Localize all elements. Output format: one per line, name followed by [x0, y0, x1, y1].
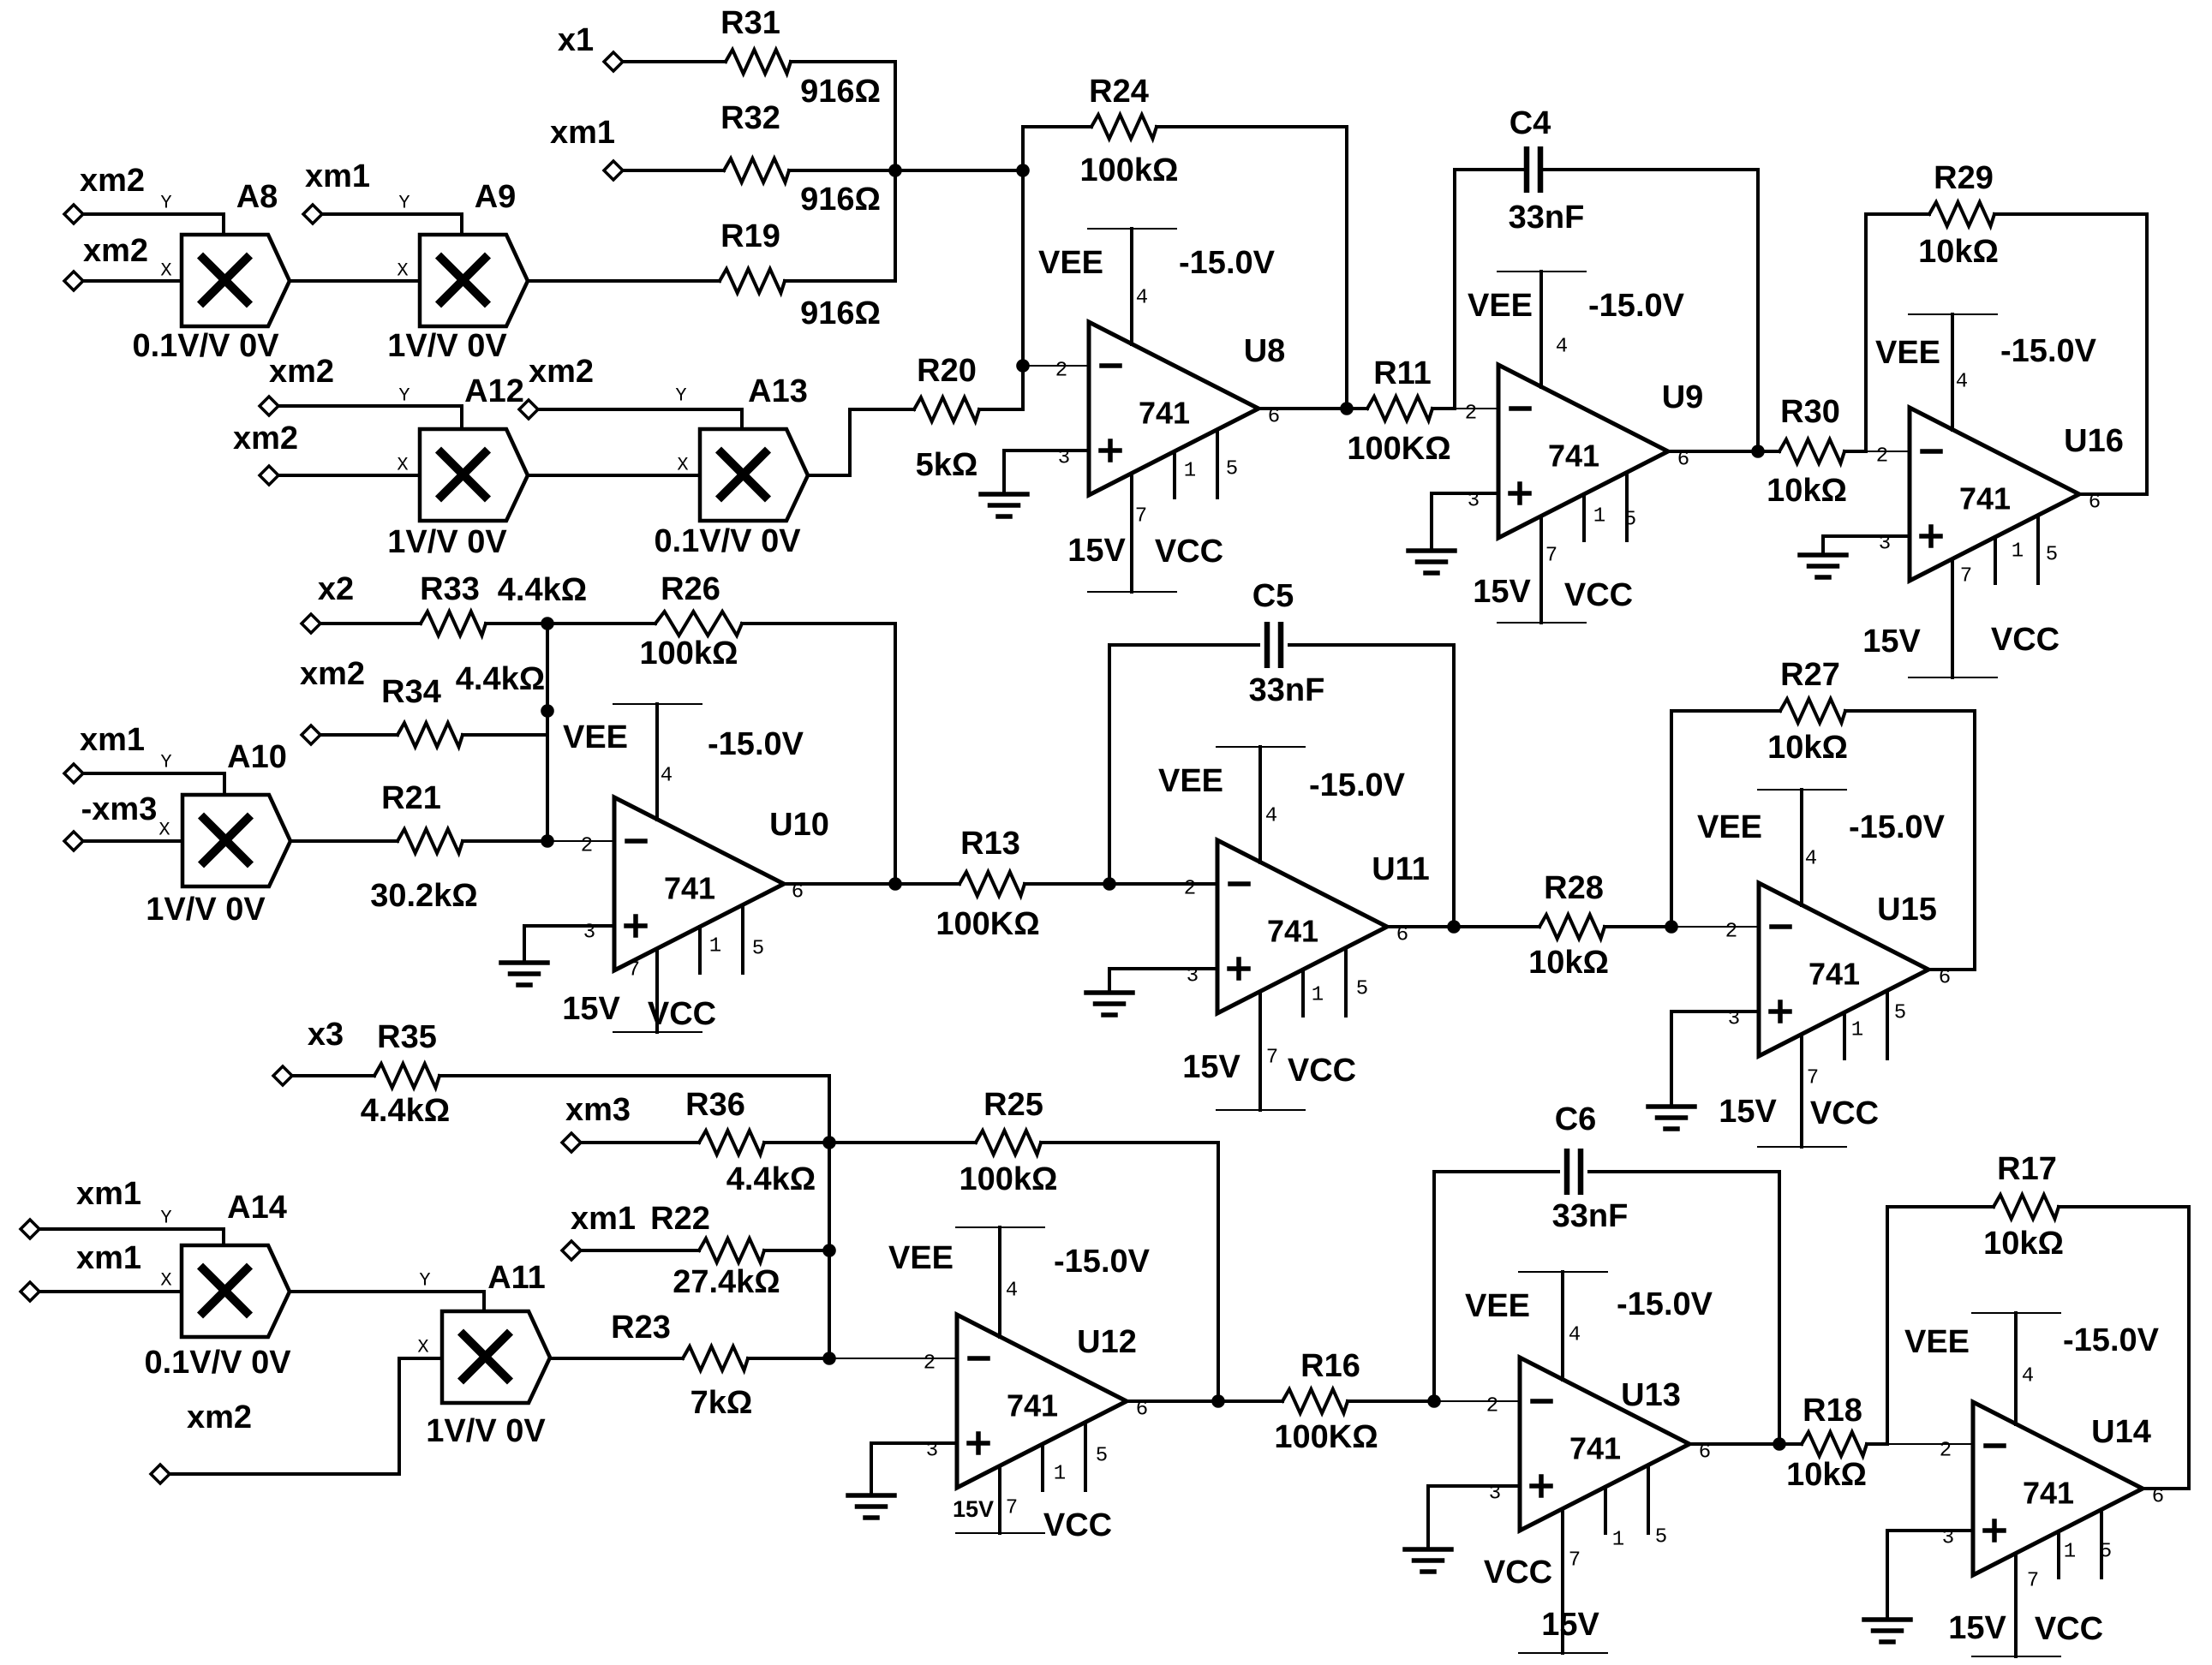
svg-text:7: 7 [1545, 545, 1557, 568]
svg-text:7: 7 [1569, 1549, 1581, 1572]
svg-text:5: 5 [1096, 1445, 1108, 1468]
svg-text:-15.0V: -15.0V [1588, 288, 1685, 324]
svg-text:5: 5 [1356, 978, 1368, 1001]
svg-text:1: 1 [1593, 505, 1605, 528]
svg-text:VEE: VEE [1038, 245, 1103, 281]
svg-text:R30: R30 [1780, 394, 1840, 430]
svg-text:1: 1 [2064, 1541, 2076, 1564]
svg-text:xm1: xm1 [80, 722, 145, 758]
svg-text:xm2: xm2 [187, 1399, 252, 1435]
svg-text:10kΩ: 10kΩ [1918, 234, 1999, 270]
svg-text:33nF: 33nF [1552, 1198, 1629, 1234]
svg-text:1: 1 [2012, 540, 2024, 564]
svg-text:R29: R29 [1934, 160, 1994, 196]
svg-text:7: 7 [1266, 1047, 1278, 1070]
svg-text:6: 6 [1939, 967, 1951, 990]
svg-text:15V: 15V [1473, 574, 1531, 610]
svg-text:Y: Y [398, 385, 410, 407]
svg-text:10kΩ: 10kΩ [1528, 945, 1609, 981]
svg-text:7: 7 [628, 959, 640, 982]
svg-text:xm1: xm1 [571, 1201, 636, 1237]
svg-text:U12: U12 [1077, 1324, 1137, 1360]
svg-text:4.4kΩ: 4.4kΩ [726, 1161, 816, 1197]
svg-text:10kΩ: 10kΩ [1767, 730, 1848, 766]
svg-text:R23: R23 [611, 1310, 671, 1346]
svg-text:7: 7 [1807, 1067, 1819, 1090]
svg-text:741: 741 [1139, 396, 1190, 431]
svg-text:2: 2 [1465, 403, 1477, 426]
svg-text:2: 2 [1940, 1440, 1952, 1463]
svg-text:7: 7 [1135, 505, 1147, 528]
svg-text:U14: U14 [2091, 1414, 2151, 1450]
svg-text:R34: R34 [381, 674, 441, 710]
svg-text:VCC: VCC [1043, 1507, 1112, 1543]
svg-text:xm1: xm1 [76, 1240, 141, 1276]
svg-text:Y: Y [419, 1270, 430, 1292]
svg-text:VEE: VEE [1875, 335, 1940, 371]
svg-text:741: 741 [2023, 1476, 2074, 1511]
svg-text:R24: R24 [1089, 74, 1149, 110]
svg-text:-15.0V: -15.0V [1179, 245, 1276, 281]
svg-text:7kΩ: 7kΩ [691, 1385, 753, 1421]
svg-text:xm2: xm2 [80, 163, 145, 199]
svg-text:U10: U10 [769, 807, 829, 843]
svg-text:R20: R20 [917, 353, 977, 389]
svg-text:1: 1 [709, 935, 721, 958]
svg-text:VEE: VEE [1468, 288, 1533, 324]
svg-text:xm3: xm3 [565, 1092, 631, 1128]
svg-text:0.1V/V 0V: 0.1V/V 0V [132, 328, 279, 364]
svg-text:X: X [397, 455, 408, 476]
svg-text:2: 2 [924, 1352, 936, 1376]
svg-text:A8: A8 [236, 179, 278, 215]
svg-text:741: 741 [1808, 957, 1860, 992]
svg-text:100KΩ: 100KΩ [1274, 1419, 1378, 1455]
svg-text:4: 4 [1805, 848, 1817, 871]
svg-text:5: 5 [2100, 1541, 2112, 1564]
svg-text:1: 1 [1612, 1529, 1624, 1552]
svg-text:15V: 15V [1719, 1094, 1777, 1130]
svg-text:7: 7 [2027, 1570, 2039, 1593]
svg-text:1: 1 [1184, 460, 1196, 483]
svg-text:R11: R11 [1373, 355, 1432, 391]
svg-text:R26: R26 [661, 571, 720, 607]
svg-text:xm2: xm2 [300, 656, 365, 692]
svg-text:15V: 15V [1862, 624, 1921, 659]
svg-text:VCC: VCC [1810, 1095, 1879, 1131]
svg-text:X: X [397, 260, 408, 282]
svg-text:741: 741 [1007, 1388, 1058, 1423]
svg-text:U13: U13 [1621, 1377, 1681, 1413]
svg-text:4: 4 [1136, 287, 1148, 310]
svg-text:4: 4 [1556, 336, 1568, 359]
svg-text:Y: Y [160, 752, 171, 773]
svg-text:5: 5 [1226, 458, 1238, 481]
svg-text:741: 741 [664, 871, 715, 906]
svg-text:100kΩ: 100kΩ [639, 636, 738, 671]
svg-text:R27: R27 [1780, 657, 1840, 693]
svg-text:R17: R17 [1997, 1151, 2057, 1187]
svg-text:10kΩ: 10kΩ [1983, 1226, 2064, 1262]
svg-text:1: 1 [1054, 1463, 1066, 1486]
svg-text:4: 4 [661, 765, 673, 788]
svg-text:10kΩ: 10kΩ [1786, 1457, 1867, 1493]
svg-text:15V: 15V [953, 1496, 994, 1522]
svg-text:5kΩ: 5kΩ [916, 447, 978, 483]
svg-text:x3: x3 [308, 1017, 344, 1053]
svg-text:R31: R31 [720, 5, 780, 41]
svg-text:-15.0V: -15.0V [1617, 1286, 1713, 1322]
svg-text:R25: R25 [983, 1087, 1043, 1123]
svg-text:A12: A12 [464, 373, 524, 409]
svg-text:xm2: xm2 [83, 233, 148, 269]
svg-text:xm2: xm2 [269, 354, 334, 390]
svg-text:0.1V/V 0V: 0.1V/V 0V [654, 523, 801, 559]
svg-text:A11: A11 [487, 1260, 546, 1296]
svg-text:U16: U16 [2064, 423, 2124, 459]
svg-text:4: 4 [2022, 1365, 2034, 1388]
svg-text:741: 741 [1267, 914, 1318, 949]
svg-text:2: 2 [1055, 360, 1067, 383]
svg-text:R35: R35 [377, 1019, 437, 1055]
svg-text:A10: A10 [227, 739, 287, 775]
svg-text:15V: 15V [1541, 1607, 1599, 1643]
svg-text:VEE: VEE [1158, 763, 1223, 799]
svg-text:0.1V/V 0V: 0.1V/V 0V [144, 1345, 291, 1381]
svg-text:7: 7 [1006, 1497, 1018, 1520]
svg-text:R22: R22 [650, 1201, 710, 1237]
svg-text:xm1: xm1 [550, 115, 615, 151]
svg-text:15V: 15V [1948, 1610, 2006, 1646]
svg-text:Y: Y [160, 193, 171, 214]
svg-text:100kΩ: 100kΩ [1079, 152, 1178, 188]
svg-text:R28: R28 [1544, 870, 1604, 906]
svg-text:4: 4 [1956, 371, 1968, 394]
svg-text:1: 1 [1312, 984, 1324, 1007]
svg-text:C4: C4 [1510, 105, 1551, 141]
svg-text:-15.0V: -15.0V [2063, 1322, 2160, 1358]
svg-text:15V: 15V [1182, 1049, 1241, 1085]
svg-text:4: 4 [1569, 1324, 1581, 1347]
svg-text:33nF: 33nF [1249, 672, 1325, 708]
svg-text:R32: R32 [720, 100, 780, 136]
svg-text:2: 2 [1486, 1395, 1498, 1418]
svg-text:100kΩ: 100kΩ [959, 1161, 1057, 1197]
svg-text:10kΩ: 10kΩ [1767, 473, 1847, 509]
svg-text:X: X [677, 455, 688, 476]
svg-text:1V/V 0V: 1V/V 0V [426, 1413, 546, 1449]
svg-text:VCC: VCC [1564, 577, 1633, 613]
svg-text:916Ω: 916Ω [800, 295, 881, 331]
svg-text:-15.0V: -15.0V [2000, 333, 2097, 369]
svg-text:15V: 15V [562, 991, 620, 1027]
svg-text:5: 5 [752, 938, 764, 961]
svg-text:VEE: VEE [1904, 1324, 1970, 1360]
svg-text:1V/V 0V: 1V/V 0V [387, 328, 507, 364]
svg-text:2: 2 [1184, 878, 1196, 901]
svg-text:4: 4 [1265, 805, 1277, 828]
svg-text:5: 5 [2046, 544, 2058, 567]
svg-text:VCC: VCC [1991, 622, 2060, 658]
svg-text:R16: R16 [1300, 1348, 1360, 1384]
svg-text:Y: Y [160, 1208, 171, 1229]
svg-text:xm2: xm2 [233, 421, 298, 457]
svg-text:U11: U11 [1372, 851, 1430, 887]
svg-text:4.4kΩ: 4.4kΩ [456, 661, 545, 697]
svg-text:VEE: VEE [563, 719, 628, 755]
svg-text:4.4kΩ: 4.4kΩ [498, 572, 587, 608]
svg-text:X: X [160, 1270, 171, 1292]
svg-text:5: 5 [1624, 509, 1636, 532]
svg-text:U9: U9 [1662, 379, 1704, 415]
svg-text:R19: R19 [720, 218, 780, 254]
svg-text:x2: x2 [318, 571, 354, 607]
svg-text:4: 4 [1006, 1280, 1018, 1303]
svg-text:1V/V 0V: 1V/V 0V [146, 892, 266, 928]
svg-text:2: 2 [581, 835, 593, 858]
svg-text:100KΩ: 100KΩ [1347, 431, 1450, 467]
svg-text:Y: Y [398, 193, 410, 214]
svg-text:6: 6 [2089, 492, 2101, 515]
svg-text:R21: R21 [381, 780, 441, 816]
svg-text:X: X [158, 820, 170, 841]
svg-text:-15.0V: -15.0V [1309, 767, 1406, 803]
svg-text:1: 1 [1851, 1019, 1863, 1042]
svg-text:741: 741 [1548, 439, 1599, 474]
svg-text:R13: R13 [960, 826, 1020, 862]
svg-text:A9: A9 [475, 179, 517, 215]
svg-text:27.4kΩ: 27.4kΩ [673, 1264, 780, 1300]
svg-text:1V/V 0V: 1V/V 0V [387, 524, 507, 560]
svg-text:C5: C5 [1252, 578, 1294, 614]
svg-text:741: 741 [1569, 1431, 1621, 1466]
svg-text:5: 5 [1894, 1002, 1906, 1025]
svg-text:X: X [160, 260, 171, 282]
svg-text:4.4kΩ: 4.4kΩ [361, 1093, 450, 1129]
svg-text:-xm3: -xm3 [81, 791, 158, 827]
svg-text:R36: R36 [685, 1087, 745, 1123]
svg-text:VCC: VCC [2035, 1611, 2103, 1647]
svg-text:C6: C6 [1555, 1101, 1597, 1137]
svg-text:VEE: VEE [1697, 809, 1762, 845]
svg-text:VEE: VEE [1465, 1288, 1530, 1324]
svg-text:xm1: xm1 [76, 1176, 141, 1212]
svg-text:VCC: VCC [648, 996, 716, 1032]
svg-text:2: 2 [1725, 921, 1737, 944]
svg-text:30.2kΩ: 30.2kΩ [370, 878, 478, 914]
svg-text:VEE: VEE [888, 1240, 954, 1276]
svg-text:741: 741 [1959, 481, 2011, 516]
svg-text:R18: R18 [1802, 1393, 1862, 1429]
svg-text:X: X [417, 1337, 428, 1358]
svg-text:R33: R33 [420, 571, 480, 607]
svg-text:15V: 15V [1067, 533, 1126, 569]
svg-text:U8: U8 [1244, 333, 1286, 369]
svg-text:5: 5 [1655, 1526, 1667, 1549]
svg-text:VCC: VCC [1288, 1053, 1356, 1089]
svg-text:-15.0V: -15.0V [1849, 809, 1946, 845]
svg-text:VCC: VCC [1155, 534, 1223, 570]
svg-text:7: 7 [1960, 565, 1972, 588]
svg-text:Y: Y [675, 385, 686, 407]
svg-text:916Ω: 916Ω [800, 182, 881, 218]
svg-text:A13: A13 [748, 373, 808, 409]
svg-text:916Ω: 916Ω [800, 74, 881, 110]
svg-text:A14: A14 [227, 1190, 287, 1226]
svg-text:33nF: 33nF [1509, 200, 1585, 236]
svg-text:U15: U15 [1877, 892, 1937, 928]
svg-text:-15.0V: -15.0V [1054, 1244, 1151, 1280]
svg-text:-15.0V: -15.0V [708, 726, 804, 762]
svg-text:2: 2 [1876, 445, 1888, 468]
svg-text:xm1: xm1 [305, 158, 370, 194]
svg-text:100KΩ: 100KΩ [936, 906, 1039, 942]
svg-text:xm2: xm2 [529, 354, 594, 390]
svg-text:VCC: VCC [1484, 1555, 1552, 1590]
svg-text:x1: x1 [558, 22, 594, 58]
svg-text:6: 6 [2152, 1486, 2164, 1509]
